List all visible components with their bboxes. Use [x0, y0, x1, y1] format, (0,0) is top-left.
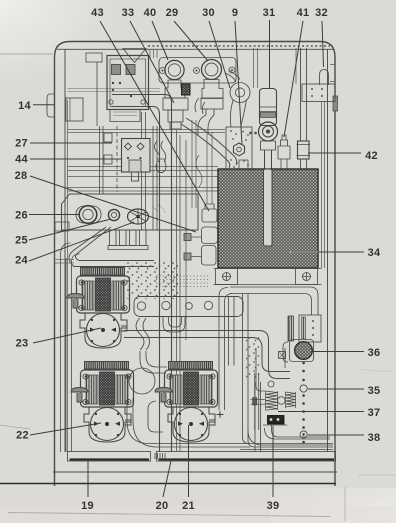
svg-text:26: 26 — [15, 210, 28, 222]
svg-text:30: 30 — [202, 7, 215, 19]
svg-text:31: 31 — [263, 7, 276, 19]
svg-text:28: 28 — [15, 170, 28, 182]
svg-text:21: 21 — [182, 500, 195, 512]
svg-text:43: 43 — [91, 7, 104, 19]
svg-text:41: 41 — [297, 7, 310, 19]
svg-text:36: 36 — [368, 347, 381, 359]
svg-text:25: 25 — [15, 235, 28, 247]
svg-text:32: 32 — [315, 7, 328, 19]
svg-text:40: 40 — [144, 7, 157, 19]
svg-text:44: 44 — [15, 154, 28, 166]
svg-text:35: 35 — [368, 385, 381, 397]
svg-text:27: 27 — [15, 138, 28, 150]
svg-text:20: 20 — [156, 500, 169, 512]
svg-text:29: 29 — [166, 7, 179, 19]
svg-text:34: 34 — [368, 247, 381, 259]
svg-text:22: 22 — [16, 430, 29, 442]
svg-text:23: 23 — [16, 338, 29, 350]
svg-text:37: 37 — [368, 407, 381, 419]
svg-text:42: 42 — [365, 150, 378, 162]
svg-text:24: 24 — [15, 255, 28, 267]
svg-text:9: 9 — [232, 7, 238, 19]
svg-text:14: 14 — [18, 100, 31, 112]
svg-text:19: 19 — [81, 500, 94, 512]
svg-text:38: 38 — [368, 432, 381, 444]
svg-text:33: 33 — [122, 7, 135, 19]
svg-text:39: 39 — [267, 500, 280, 512]
